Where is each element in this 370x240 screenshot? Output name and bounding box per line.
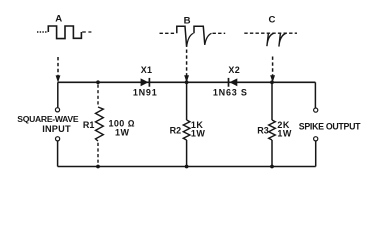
junction R1 bottom — [96, 165, 100, 169]
probe line B (dashed) — [186, 50, 188, 76]
bottom bus wire — [58, 166, 316, 168]
probe arrow A — [56, 75, 61, 82]
waveform B pulse 1 — [177, 26, 187, 47]
junction node B top — [185, 80, 189, 84]
waveform C spike 2 — [279, 33, 286, 46]
wire: top-right corner down to output — [314, 82, 316, 108]
resistor R1 zigzag — [96, 107, 104, 141]
svg-text:X1: X1 — [141, 65, 153, 75]
svg-text:SPIKE OUTPUT: SPIKE OUTPUT — [299, 121, 361, 131]
probe line C (dashed) — [272, 57, 274, 76]
resistor R2 zigzag — [183, 120, 190, 140]
probe arrow B — [184, 75, 189, 82]
waveform B tail 1 — [187, 33, 194, 47]
input terminal lower — [56, 137, 60, 141]
resistor R2 lead top — [186, 82, 188, 120]
output terminal lower — [314, 137, 318, 141]
top bus wire — [58, 81, 316, 83]
waveform B lead dashes — [160, 32, 177, 34]
probe arrow C — [270, 75, 275, 82]
wire: input column top — [57, 82, 59, 107]
resistor R3 zigzag — [269, 120, 276, 140]
svg-text:C: C — [269, 15, 276, 26]
svg-text:1W: 1W — [277, 128, 292, 138]
svg-text:1W: 1W — [115, 128, 130, 138]
svg-text:SQUARE-WAVE: SQUARE-WAVE — [17, 114, 79, 124]
svg-text:X2: X2 — [228, 65, 240, 75]
input terminal upper — [55, 108, 59, 112]
wire: input column bottom — [57, 141, 59, 167]
svg-text:A: A — [55, 14, 62, 25]
resistor R3 lead bottom — [271, 140, 273, 167]
waveform B tail 2 — [205, 33, 212, 45]
svg-text:1N63 S: 1N63 S — [213, 88, 248, 98]
junction R3 bottom — [270, 165, 274, 169]
waveform A dotted lead-in — [37, 31, 48, 33]
waveform A trailing dashes — [82, 31, 91, 33]
output terminal upper — [314, 108, 318, 112]
junction R2 bottom — [185, 165, 189, 169]
waveform C spike 1 — [267, 33, 274, 46]
svg-text:1N91: 1N91 — [133, 88, 158, 98]
resistor R2 lead bottom — [186, 140, 188, 167]
svg-text:INPUT: INPUT — [42, 124, 71, 134]
waveform C baseline dashes — [244, 32, 297, 34]
resistor R3 lead top — [271, 82, 273, 120]
waveform A square wave — [48, 26, 81, 39]
svg-text:R2: R2 — [170, 125, 182, 135]
svg-text:R1: R1 — [83, 120, 95, 130]
waveform B pulse 2 — [194, 26, 205, 45]
waveform B trailing dashes — [213, 32, 226, 34]
svg-text:B: B — [184, 16, 191, 27]
svg-text:1W: 1W — [191, 128, 206, 138]
probe line A (dashed) — [57, 57, 59, 76]
wire: output column bottom — [315, 141, 317, 167]
diode X1 — [141, 78, 149, 86]
diode X2 — [229, 78, 237, 86]
junction node C top — [270, 80, 274, 84]
junction R1 top — [96, 80, 100, 84]
resistor R1 dashed lead top — [97, 85, 99, 107]
resistor R1 dashed lead bottom — [97, 143, 99, 165]
svg-text:R3: R3 — [257, 126, 269, 136]
